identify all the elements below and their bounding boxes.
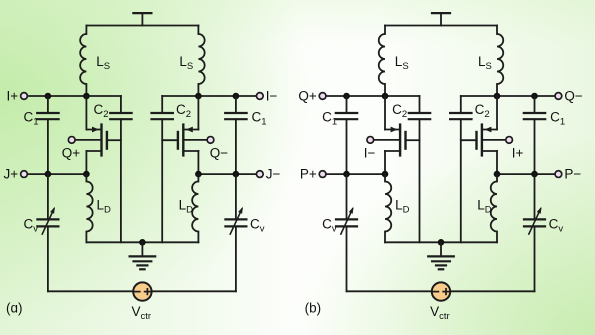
wire a left varactor top — [47, 174, 49, 219]
wire LD to ground rail (a left) — [85, 232, 87, 243]
wire top rail (b) — [385, 25, 497, 27]
wire drain (a left) — [85, 96, 87, 130]
capacitor C2 (a right) — [152, 102, 192, 120]
node dot (a left drain) — [83, 93, 90, 100]
port P&#8722; (b) — [555, 167, 581, 182]
svg-text:LS: LS — [395, 54, 409, 72]
svg-text:C2: C2 — [392, 102, 407, 120]
wire (b) left to LS — [384, 26, 386, 35]
varactor Cv b right varactor — [524, 207, 563, 235]
svg-text:P+: P+ — [300, 167, 317, 182]
svg-text:J+: J+ — [4, 167, 19, 182]
wire C2 bottom to ground rail (a left) — [120, 119, 122, 242]
svg-text:Q+: Q+ — [298, 89, 317, 104]
varactor Cv a left varactor — [24, 207, 59, 235]
wire source (b left) — [384, 151, 386, 174]
wire Q+ rail (b) — [323, 96, 420, 113]
wire LS to node (b left) — [384, 84, 386, 96]
node dot (a left LD) — [83, 171, 90, 178]
wire to LD (b right) — [496, 174, 498, 181]
capacitor C1 (b right) — [524, 96, 565, 174]
svg-text:I+: I+ — [512, 145, 524, 160]
wire source (a left) — [85, 151, 87, 174]
wire b left varactor bottom — [346, 226, 348, 291]
node dot (a left C1 top) — [45, 93, 52, 100]
inductor LS (a right) — [179, 34, 204, 84]
wire C2 bottom to ground rail (b left) — [419, 119, 421, 242]
port I+ (b) — [482, 137, 524, 161]
wire bottom (b) — [347, 290, 535, 292]
capacitor C1 (b left) — [322, 96, 357, 174]
node dot (b left drain) — [382, 93, 389, 100]
wire J&#8722; rail (a) — [198, 173, 259, 175]
wire LD to ground rail (b left) — [384, 232, 386, 243]
svg-text:C2: C2 — [475, 102, 490, 120]
inductor LD (a right) — [179, 182, 199, 232]
svg-text:Cv: Cv — [24, 217, 39, 235]
wire source (a right) — [197, 151, 199, 174]
node dot (a ground) — [139, 239, 146, 246]
wire drain (a right) — [197, 96, 199, 130]
wire b right varactor top — [534, 174, 536, 219]
node dot (b left Cv) — [343, 171, 350, 178]
wire top rail (a) — [86, 25, 198, 27]
wire J+ rail (a) — [24, 173, 86, 175]
wire drain (b left) — [384, 96, 386, 130]
port I+ (a) — [7, 89, 28, 104]
voltage source Vctr (b) — [430, 282, 450, 322]
wire bottom (a) — [48, 290, 236, 292]
port I&#8722; (a) — [256, 89, 277, 104]
capacitor C1 (a left) — [24, 96, 59, 174]
svg-text:Q−: Q− — [564, 89, 583, 104]
port P+ (b) — [300, 167, 326, 182]
wire (b) right to LS — [496, 26, 498, 35]
port Q&#8722; (b) — [555, 89, 583, 104]
inductor LS (b left) — [379, 34, 409, 84]
node dot (b left C1 top) — [343, 93, 350, 100]
ground (b) — [428, 242, 454, 269]
wire (a) left to LS — [85, 26, 87, 35]
svg-text:LD: LD — [179, 198, 194, 216]
svg-text:C1: C1 — [550, 110, 565, 128]
wire P&#8722; rail (b) — [497, 173, 558, 175]
wire a right varactor top — [235, 174, 237, 219]
ground (a) — [130, 242, 156, 269]
svg-text:Vctr: Vctr — [430, 304, 450, 322]
port J+ (a) — [4, 167, 28, 182]
wire source (b right) — [496, 151, 498, 174]
supply rail symbol (a) — [133, 13, 151, 25]
inductor LD (b left) — [385, 182, 410, 232]
wire I+ rail (a) — [24, 96, 121, 113]
svg-text:J−: J− — [266, 167, 281, 182]
svg-text:LS: LS — [478, 54, 492, 72]
transistor Q&#8722; (a right) — [162, 125, 198, 156]
wire C2 bottom to ground rail (b right) — [460, 119, 462, 242]
wire LD to ground rail (b right) — [496, 232, 498, 243]
wire b right varactor bottom — [534, 226, 536, 291]
svg-text:Cv: Cv — [250, 217, 265, 235]
wire a right varactor bottom — [235, 226, 237, 291]
capacitor C1 (a right) — [225, 96, 266, 174]
node dot (a right C1 top) — [233, 93, 240, 100]
wire to LD (b left) — [384, 174, 386, 181]
inductor LD (a left) — [86, 182, 111, 232]
node dot (a right LD) — [195, 171, 202, 178]
node dot (a right drain) — [195, 93, 202, 100]
svg-text:Q+: Q+ — [62, 145, 81, 160]
svg-text:C1: C1 — [252, 110, 267, 128]
node dot (b right LD) — [494, 171, 501, 178]
port Q&#8722; (a) — [183, 137, 228, 161]
wire C2 bottom to ground rail (a right) — [161, 119, 163, 242]
transistor I+ (b right) — [461, 125, 497, 156]
wire Q&#8722; rail (b) — [461, 96, 559, 113]
svg-text:C2: C2 — [176, 102, 191, 120]
wire I&#8722; rail (a) — [162, 96, 260, 113]
node dot (b right drain) — [494, 93, 501, 100]
voltage source Vctr (a) — [132, 282, 152, 322]
svg-text:Cv: Cv — [322, 217, 337, 235]
svg-text:LD: LD — [395, 198, 410, 216]
varactor Cv a right varactor — [225, 207, 264, 235]
node dot (b left LD) — [382, 171, 389, 178]
node dot (a right Cv) — [233, 171, 240, 178]
inductor LS (b right) — [478, 34, 503, 84]
wire LS to node (b right) — [496, 84, 498, 96]
node dot (b right Cv) — [531, 171, 538, 178]
inductor LD (b right) — [477, 182, 497, 232]
svg-text:LD: LD — [97, 198, 112, 216]
supply rail symbol (b) — [432, 13, 450, 25]
svg-text:Vctr: Vctr — [132, 304, 152, 322]
node dot (a left Cv) — [45, 171, 52, 178]
svg-text:C2: C2 — [94, 102, 109, 120]
svg-text:LS: LS — [179, 54, 193, 72]
svg-text:(b): (b) — [305, 300, 322, 315]
capacitor C2 (a left) — [94, 102, 132, 120]
wire (a) right to LS — [197, 26, 199, 35]
svg-text:Q−: Q− — [210, 145, 229, 160]
wire to LD (a left) — [85, 174, 87, 181]
port I&#8722; (b) — [364, 137, 400, 161]
port J&#8722; (a) — [256, 167, 280, 182]
wire a left varactor bottom — [47, 226, 49, 291]
varactor Cv b left varactor — [322, 207, 357, 235]
svg-text:LD: LD — [477, 198, 492, 216]
wire drain (b right) — [496, 96, 498, 130]
svg-text:I−: I− — [266, 89, 278, 104]
svg-text:(ɑ): (ɑ) — [6, 300, 23, 315]
transistor Q+ (a left) — [86, 125, 121, 156]
svg-text:LS: LS — [96, 54, 110, 72]
wire b left varactor top — [346, 174, 348, 219]
svg-text:I−: I− — [364, 145, 376, 160]
svg-text:I+: I+ — [7, 89, 19, 104]
svg-text:Cv: Cv — [549, 217, 564, 235]
capacitor C2 (b left) — [392, 102, 430, 120]
wire LS to node (a right) — [197, 84, 199, 96]
svg-text:P−: P− — [564, 167, 581, 182]
port Q+ (b) — [298, 89, 326, 104]
wire ground rail (a) — [86, 241, 198, 243]
wire LD to ground rail (a right) — [197, 232, 199, 243]
capacitor C2 (b right) — [450, 102, 490, 120]
node dot (b right C1 top) — [531, 93, 538, 100]
wire LS to node (a left) — [85, 84, 87, 96]
transistor I&#8722; (b left) — [385, 125, 420, 156]
inductor LS (a left) — [80, 34, 110, 84]
wire to LD (a right) — [197, 174, 199, 181]
wire P+ rail (b) — [323, 173, 385, 175]
node dot (b ground) — [438, 239, 445, 246]
port Q+ (a) — [62, 137, 102, 161]
wire ground rail (b) — [385, 241, 497, 243]
